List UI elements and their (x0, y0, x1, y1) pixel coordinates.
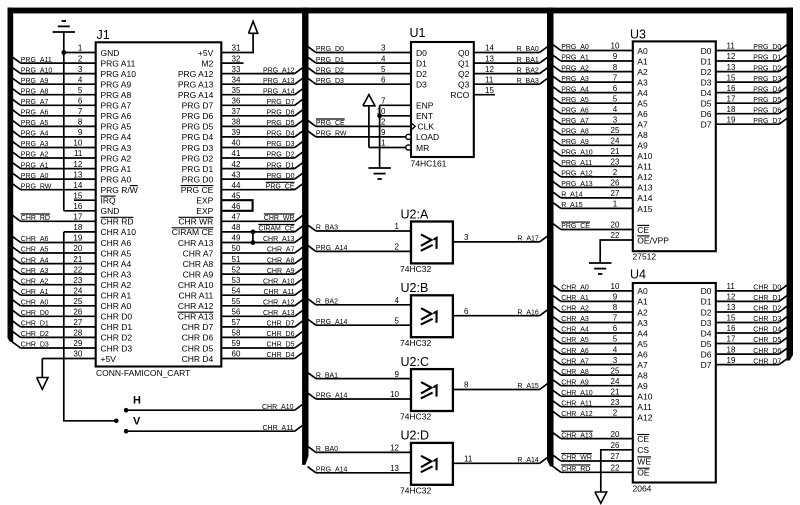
svg-text:5: 5 (613, 335, 618, 344)
or-gate U2:C symbol >=1 (421, 382, 437, 398)
svg-text:PRG_D4: PRG_D4 (753, 86, 781, 93)
svg-text:CHR_D4: CHR_D4 (266, 352, 294, 359)
svg-text:55: 55 (232, 297, 241, 306)
svg-text:R_BA3: R_BA3 (517, 78, 539, 85)
wire J1 pin 29 net CHR_D3 with bus entry (12, 339, 96, 349)
svg-text:CHR RD: CHR RD (101, 217, 134, 227)
svg-text:PRG_A2: PRG_A2 (21, 152, 49, 159)
U4 pin name WE (637, 456, 651, 466)
U3 pin name A1 (637, 56, 648, 66)
U3 pin name A12 (637, 172, 652, 182)
eprom U3 value 27512 (633, 252, 657, 262)
svg-text:EXP: EXP (196, 206, 213, 216)
wire J1 pin 50 net CHR_A7 with bus entry (221, 244, 303, 254)
svg-text:CHR_D6: CHR_D6 (753, 348, 781, 355)
svg-text:U4: U4 (630, 268, 646, 282)
svg-text:CHR WR: CHR WR (178, 217, 213, 227)
J1 pin 34 name PRG A13 (178, 80, 214, 90)
U3 pin name A7 (637, 120, 648, 130)
J1 pin 23 name CHR A2 (101, 280, 132, 290)
U4 pin name A5 (637, 339, 648, 349)
svg-text:15: 15 (727, 314, 736, 323)
svg-text:2: 2 (395, 243, 400, 252)
wire J1 pin 24 net CHR_A1 with bus entry (12, 286, 96, 296)
svg-text:9: 9 (395, 370, 400, 379)
svg-text:CHR_A4: CHR_A4 (561, 327, 589, 334)
svg-text:CHR_A3: CHR_A3 (21, 268, 49, 275)
svg-text:CHR A3: CHR A3 (101, 269, 132, 279)
svg-text:A5: A5 (637, 339, 648, 349)
svg-text:74HC161: 74HC161 (411, 159, 447, 169)
svg-text:13: 13 (727, 63, 736, 72)
wire U3 D0 net PRG_D0 pin 11 (716, 42, 788, 52)
svg-text:18: 18 (727, 345, 736, 354)
U1 pin name ENP (416, 101, 434, 111)
U1 pin name D2 (416, 69, 427, 79)
wire J1 pin 2 net PRG_A11 with bus entry (12, 54, 96, 64)
svg-text:PRG D1: PRG D1 (182, 164, 214, 174)
svg-text:CHR_A11: CHR_A11 (264, 289, 295, 296)
U3 pin name D2 (701, 67, 712, 77)
svg-text:22: 22 (611, 464, 620, 473)
svg-text:A7: A7 (637, 120, 648, 130)
or-gate U2:B box (411, 295, 453, 337)
svg-text:9: 9 (613, 293, 618, 302)
svg-text:Q0: Q0 (458, 48, 470, 58)
svg-text:38: 38 (232, 118, 241, 127)
svg-text:D6: D6 (701, 349, 712, 359)
svg-text:A15: A15 (637, 204, 652, 214)
svg-text:CHR_A8: CHR_A8 (267, 257, 295, 264)
U3 pin name A4 (637, 88, 648, 98)
wire U2:D output net R_A14 pin 11 (453, 455, 548, 465)
J1 pin 16 name GND (101, 206, 120, 216)
wire J1 pin 7 net PRG_A6 with bus entry (12, 107, 96, 117)
svg-text:A1: A1 (637, 297, 648, 307)
J1 pin 46 name EXP (196, 206, 213, 216)
svg-text:PRG_A7: PRG_A7 (561, 118, 589, 125)
wire J1 pin 32 M2 stub (221, 54, 243, 63)
svg-text:A4: A4 (637, 88, 648, 98)
U4 pin name D6 (701, 349, 712, 359)
svg-text:24: 24 (611, 137, 620, 146)
svg-text:H: H (133, 395, 141, 407)
svg-text:13: 13 (73, 170, 82, 179)
svg-text:U2:B: U2:B (401, 281, 429, 295)
svg-text:16: 16 (727, 324, 736, 333)
wire J1 pin 10 net PRG_A3 with bus entry (12, 139, 96, 149)
svg-text:U1: U1 (410, 26, 426, 40)
J1 pin 26 name CHR D0 (101, 312, 133, 322)
ram U4 refdes (630, 268, 646, 282)
J1 pin 49 name CHR A13 (178, 238, 214, 248)
svg-text:43: 43 (232, 170, 241, 179)
svg-text:33: 33 (232, 65, 241, 74)
svg-text:CHR_D1: CHR_D1 (21, 321, 49, 328)
svg-text:PRG_A8: PRG_A8 (21, 88, 49, 95)
svg-text:PRG_A10: PRG_A10 (21, 67, 53, 74)
U3 pin name A15 (637, 204, 652, 214)
svg-text:PRG_D7: PRG_D7 (266, 99, 294, 106)
wire U4 D7 net CHR_D7 pin 19 (716, 356, 788, 366)
svg-text:56: 56 (232, 308, 241, 317)
svg-text:D2: D2 (701, 307, 712, 317)
svg-text:D1: D1 (701, 56, 712, 66)
wire U3 D3 net PRG_D3 pin 15 (716, 73, 788, 83)
svg-text:PRG_A0: PRG_A0 (21, 173, 49, 180)
svg-text:37: 37 (232, 107, 241, 116)
svg-text:CHR_D5: CHR_D5 (266, 342, 294, 349)
power arrow at J1 pin 30 (down) (37, 378, 48, 390)
wire J1 pin 18 CHR A10 to mirroring selector (64, 223, 96, 232)
wire U4 A10 net CHR_A10 pin 21 (553, 387, 633, 397)
svg-text:A3: A3 (637, 318, 648, 328)
svg-text:2064: 2064 (633, 484, 652, 494)
wire U4 A11 net CHR_A11 pin 23 (553, 398, 633, 408)
svg-text:OE/VPP: OE/VPP (637, 235, 669, 245)
wire net CHR_A11 from V pad to middle bus (126, 425, 303, 432)
wire U4 D1 net CHR_D1 pin 12 (716, 293, 788, 303)
svg-text:PRG_D6: PRG_D6 (753, 107, 781, 114)
J1 pin 41 name PRG D2 (182, 153, 214, 163)
U3 pin name D4 (701, 88, 712, 98)
J1 pin 59 name CHR D5 (182, 343, 214, 353)
wire J1 pin 56 net CHR_A13 with bus entry (221, 308, 303, 318)
svg-text:3: 3 (613, 356, 618, 365)
J1 pin 5 name PRG A8 (101, 90, 132, 100)
svg-text:45: 45 (232, 191, 241, 200)
svg-text:8: 8 (613, 303, 618, 312)
wire J1 pin 15 IRQ stub (73, 191, 95, 200)
svg-text:D3: D3 (701, 77, 712, 87)
svg-text:CHR_A2: CHR_A2 (561, 306, 589, 313)
svg-text:PRG A0: PRG A0 (101, 174, 132, 184)
svg-text:12: 12 (485, 65, 494, 74)
wire U3 CE net PRG_CE pin 20 (553, 221, 633, 231)
J1 pin 58 name CHR D6 (182, 333, 214, 343)
wire U1 input PRG_D3 pin 6 (308, 75, 412, 85)
svg-text:PRG_A0: PRG_A0 (561, 44, 589, 51)
svg-text:A7: A7 (637, 360, 648, 370)
svg-text:CHR D3: CHR D3 (101, 343, 133, 353)
svg-text:74HC32: 74HC32 (400, 338, 431, 348)
U4 pin name A9 (637, 381, 648, 391)
wire J1 pin 13 net PRG_A0 with bus entry (12, 170, 96, 180)
U4 pin name A10 (637, 392, 652, 402)
svg-text:PRG A4: PRG A4 (101, 132, 132, 142)
svg-text:44: 44 (232, 181, 241, 190)
svg-text:6: 6 (464, 307, 469, 316)
svg-text:CHR_A11: CHR_A11 (561, 400, 592, 407)
J1 pin 1 name GND (101, 48, 120, 58)
U2:B value 74HC32 (400, 338, 431, 348)
svg-text:IRQ: IRQ (101, 196, 117, 206)
wire J1 pin 1 GND from ground symbol (64, 44, 96, 53)
wire U1 output Q1 net R_BA1 pin 13 (474, 54, 548, 64)
svg-text:PRG_A4: PRG_A4 (21, 131, 49, 138)
svg-text:15: 15 (73, 191, 82, 200)
svg-text:21: 21 (73, 255, 82, 264)
svg-text:19: 19 (727, 356, 736, 365)
svg-text:D1: D1 (416, 58, 427, 68)
svg-text:CHR_A6: CHR_A6 (561, 348, 589, 355)
svg-text:CHR_A11: CHR_A11 (263, 425, 294, 432)
svg-text:2: 2 (613, 409, 618, 418)
svg-text:D0: D0 (701, 286, 712, 296)
wire CHR A10 from J1 pin 18 down to selector (64, 232, 117, 421)
svg-text:PRG_A8: PRG_A8 (561, 128, 589, 135)
svg-text:27: 27 (73, 318, 82, 327)
svg-text:CHR_A10: CHR_A10 (262, 404, 294, 411)
svg-text:CHR_A9: CHR_A9 (561, 379, 589, 386)
J1 pin 17 name CHR RD (101, 217, 134, 227)
svg-text:PRG A1: PRG A1 (101, 164, 132, 174)
J1 pin 13 name PRG A0 (101, 174, 132, 184)
svg-text:23: 23 (73, 276, 82, 285)
svg-text:PRG D2: PRG D2 (182, 153, 214, 163)
svg-text:20: 20 (611, 221, 620, 230)
wire U2:A input 1 net R_BA3 pin 1 (308, 222, 412, 232)
U1 MR inversion bubble (406, 145, 411, 150)
svg-text:4: 4 (78, 75, 83, 84)
wire U2:B input 2 net PRG_A14 pin 5 (308, 316, 412, 326)
svg-text:CHR A10: CHR A10 (178, 280, 214, 290)
U3 pin name A11 (637, 162, 652, 172)
svg-text:CE: CE (637, 225, 649, 235)
U1 pin name RCO (450, 90, 469, 100)
svg-text:PRG_RW: PRG_RW (21, 183, 52, 190)
wire U2:C output net R_A15 pin 8 (453, 381, 548, 391)
U1 pin name MR (416, 143, 429, 153)
svg-text:74HC32: 74HC32 (400, 412, 431, 422)
svg-text:PRG_CE: PRG_CE (316, 120, 345, 127)
svg-text:PRG_A10: PRG_A10 (561, 150, 593, 157)
wire U4 WE net CHR_WR pin 27 (553, 452, 633, 462)
wire U3 A14 net R_A14 pin 27 (553, 189, 633, 199)
svg-text:A9: A9 (637, 141, 648, 151)
wire J1 pin 17 net CHR_RD with bus entry (12, 213, 96, 223)
wire U4 A3 net CHR_A3 pin 7 (553, 314, 633, 324)
svg-text:CHR A1: CHR A1 (101, 291, 132, 301)
svg-text:25: 25 (611, 126, 620, 135)
wire J1 pin 9 net PRG_A4 with bus entry (12, 128, 96, 138)
svg-text:PRG D7: PRG D7 (182, 101, 214, 111)
U3 pin name CE (637, 225, 649, 235)
svg-text:CE: CE (637, 434, 649, 444)
svg-text:13: 13 (390, 464, 399, 473)
svg-text:CHR_A13: CHR_A13 (263, 310, 295, 317)
svg-text:12: 12 (727, 52, 736, 61)
wire net CHR_A10 from H pad to middle bus (126, 404, 303, 411)
svg-text:PRG_D0: PRG_D0 (316, 46, 344, 53)
svg-text:+5V: +5V (198, 48, 214, 58)
wire GND net J1 pin1 to pin16 (63, 53, 65, 211)
wire U3 A3 net PRG_A3 pin 7 (553, 73, 633, 83)
svg-text:LOAD: LOAD (416, 132, 439, 142)
ground symbol at J1 pin 1 (inverted) (53, 21, 76, 53)
wire J1 pin 34 net PRG_A13 with bus entry (221, 75, 303, 85)
svg-text:A11: A11 (637, 402, 652, 412)
svg-text:PRG_A13: PRG_A13 (561, 181, 593, 188)
U1 pin name CLK (418, 122, 435, 132)
svg-text:D7: D7 (701, 120, 712, 130)
J1 pin 43 name PRG D0 (182, 174, 214, 184)
U1 CLK input triangle (411, 123, 415, 130)
svg-text:51: 51 (232, 255, 241, 264)
svg-text:A8: A8 (637, 130, 648, 140)
svg-text:A6: A6 (637, 109, 648, 119)
svg-text:PRG_A6: PRG_A6 (561, 107, 589, 114)
svg-text:1: 1 (78, 44, 83, 53)
J1 pin 28 name CHR D2 (101, 333, 133, 343)
svg-text:PRG_A5: PRG_A5 (561, 97, 589, 104)
U3 pin name A2 (637, 67, 648, 77)
wire U4 A12 net CHR_A12 pin 2 (553, 409, 633, 419)
svg-text:CHR_D0: CHR_D0 (753, 285, 781, 292)
U4 pin name A8 (637, 370, 648, 380)
wire U4 A8 net CHR_A8 pin 25 (553, 366, 633, 376)
svg-text:CHR A2: CHR A2 (101, 280, 132, 290)
svg-text:54: 54 (232, 286, 241, 295)
svg-text:D4: D4 (701, 328, 712, 338)
svg-text:22: 22 (611, 231, 620, 240)
svg-text:D6: D6 (701, 109, 712, 119)
junction J1 pins 48-49 tie (CIRAM CE to CHR A13) (251, 230, 256, 245)
svg-text:13: 13 (727, 303, 736, 312)
svg-text:26: 26 (611, 441, 620, 450)
svg-text:11: 11 (485, 75, 494, 84)
svg-text:52: 52 (232, 265, 241, 274)
svg-text:PRG_A14: PRG_A14 (316, 319, 348, 326)
svg-text:25: 25 (611, 366, 620, 375)
svg-text:CHR_D0: CHR_D0 (21, 310, 49, 317)
svg-text:A9: A9 (637, 381, 648, 391)
J1 pin 55 name CHR A12 (178, 301, 214, 311)
svg-text:74HC32: 74HC32 (400, 264, 431, 274)
svg-text:CHR_A13: CHR_A13 (561, 432, 593, 439)
svg-text:4: 4 (395, 296, 400, 305)
svg-text:11: 11 (464, 455, 473, 464)
svg-text:CHR_D3: CHR_D3 (753, 316, 781, 323)
svg-text:GND: GND (101, 48, 120, 58)
J1 pin 8 name PRG A5 (101, 122, 132, 132)
U3 pin name D3 (701, 77, 712, 87)
svg-text:CHR_A3: CHR_A3 (561, 316, 589, 323)
svg-text:M2: M2 (201, 58, 213, 68)
U4 pin name D3 (701, 318, 712, 328)
svg-text:R_A14: R_A14 (517, 457, 539, 464)
J1 pin 40 name PRG D3 (182, 143, 214, 153)
or-gate U2:D symbol >=1 (421, 456, 437, 472)
svg-text:R_A16: R_A16 (517, 309, 539, 316)
svg-text:8: 8 (464, 381, 469, 390)
svg-text:31: 31 (232, 44, 241, 53)
svg-text:20: 20 (73, 244, 82, 253)
svg-text:J1: J1 (97, 28, 110, 42)
svg-text:CHR_A0: CHR_A0 (21, 300, 49, 307)
wire U2:A output net R_A17 pin 3 (453, 233, 548, 243)
wire U2:B input 1 net R_BA2 pin 4 (308, 296, 412, 306)
U1 LOAD inversion bubble (406, 134, 411, 139)
U3 pin name D5 (701, 99, 712, 109)
J1 pin 33 name PRG A12 (178, 69, 214, 79)
svg-text:CHR_RD: CHR_RD (561, 466, 590, 473)
svg-text:CHR_D4: CHR_D4 (753, 327, 781, 334)
or-gate U2:C box (411, 369, 453, 411)
wire U3 A13 net PRG_A13 pin 26 (553, 179, 633, 189)
svg-text:13: 13 (485, 54, 494, 63)
wire U3 D6 net PRG_D6 pin 18 (716, 105, 788, 115)
svg-text:R_BA1: R_BA1 (517, 57, 539, 64)
wire J1 pin 47 net CHR_WR with bus entry (221, 213, 303, 223)
svg-text:35: 35 (232, 86, 241, 95)
wire J1 pin 41 net PRG_D2 with bus entry (221, 149, 303, 159)
svg-text:CHR_D7: CHR_D7 (266, 321, 294, 328)
wire U4 A4 net CHR_A4 pin 6 (553, 324, 633, 334)
J1 pin 14 name PRG R/W (101, 185, 138, 195)
svg-text:PRG A12: PRG A12 (178, 69, 214, 79)
wire J1 pin 36 net PRG_D7 with bus entry (221, 97, 303, 107)
J1 pin 57 name CHR D7 (182, 322, 214, 332)
svg-text:PRG_D1: PRG_D1 (316, 57, 344, 64)
svg-text:60: 60 (232, 350, 241, 359)
eprom U3 refdes (630, 28, 646, 42)
svg-text:7: 7 (381, 97, 386, 106)
svg-text:A11: A11 (637, 162, 652, 172)
wire U4 CS pin 26 to ground arrow (601, 441, 633, 492)
J1 pin 20 name CHR A5 (101, 248, 132, 258)
wire J1 pin 52 net CHR_A9 with bus entry (221, 265, 303, 275)
wire J1 pin 23 net CHR_A2 with bus entry (12, 276, 96, 286)
svg-text:PRG_A2: PRG_A2 (561, 65, 589, 72)
wire U3 D1 net PRG_D1 pin 12 (716, 52, 788, 62)
wire J1 pin 43 net PRG_D0 with bus entry (221, 170, 303, 180)
wire U4 CE net CHR_A13 pin 20 (553, 430, 633, 440)
U1 pin name D1 (416, 58, 427, 68)
wire U4 D6 net CHR_D6 pin 18 (716, 345, 788, 355)
wire U1 output Q3 net R_BA3 pin 11 (474, 75, 548, 85)
U4 pin name A2 (637, 307, 648, 317)
counter U1 box (411, 42, 474, 157)
U2:D refdes (401, 429, 429, 443)
wire U4 A7 net CHR_A7 pin 3 (553, 356, 633, 366)
J1 pin 47 name CHR WR (178, 217, 213, 227)
wire U3 A7 net PRG_A7 pin 3 (553, 115, 633, 125)
wire U2:B output net R_A16 pin 6 (453, 307, 548, 317)
wire U2:A input 2 net PRG_A14 pin 2 (308, 243, 412, 253)
svg-text:PRG_D4: PRG_D4 (266, 131, 294, 138)
svg-text:R_A17: R_A17 (517, 236, 539, 243)
J1 pin 35 name PRG A14 (178, 90, 214, 100)
wire U4 A6 net CHR_A6 pin 4 (553, 345, 633, 355)
U2:A refdes (401, 207, 429, 221)
svg-text:6: 6 (78, 97, 83, 106)
wire J1 pin 6 net PRG_A7 with bus entry (12, 97, 96, 107)
U4 pin name A4 (637, 328, 648, 338)
wire J1 pin 42 net PRG_D1 with bus entry (221, 160, 303, 170)
wire U4 D0 net CHR_D0 pin 11 (716, 282, 788, 292)
svg-text:9: 9 (78, 128, 83, 137)
svg-text:3: 3 (78, 65, 83, 74)
svg-text:CHR_D2: CHR_D2 (21, 331, 49, 338)
svg-text:18: 18 (727, 105, 736, 114)
U3 pin name A8 (637, 130, 648, 140)
U4 pin name A7 (637, 360, 648, 370)
svg-text:CIRAM CE: CIRAM CE (172, 227, 214, 237)
svg-text:WE: WE (637, 456, 651, 466)
U3 pin name A13 (637, 183, 652, 193)
svg-text:R_A15: R_A15 (517, 383, 539, 390)
